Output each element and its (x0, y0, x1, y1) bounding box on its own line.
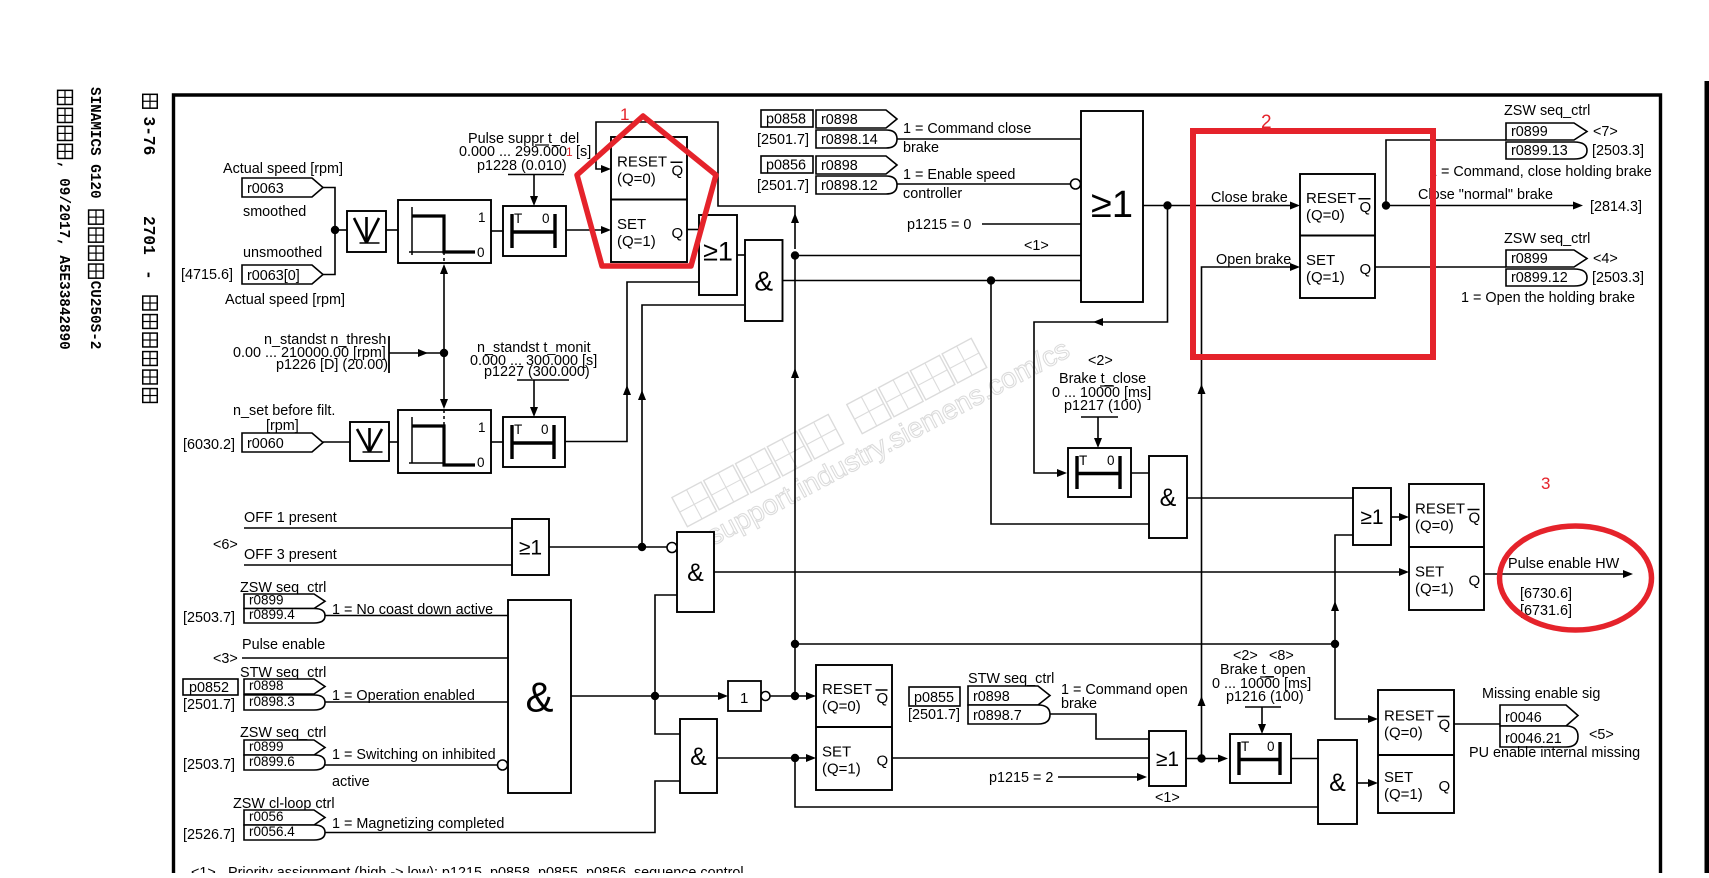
wire FF2 Qbar to [2814.3] (1386, 202, 1583, 210)
label 1 = Switching on inhibited (332, 747, 496, 763)
label 1 = Command close (903, 121, 1031, 137)
wire <1> to big OR (795, 255, 1081, 257)
svg-text:Q: Q (1469, 510, 1481, 527)
label active (332, 774, 370, 790)
svg-text:SET: SET (1415, 564, 1444, 581)
wire p1215=0 to big OR (982, 223, 1081, 225)
wire branch to and-lower input (655, 696, 680, 734)
svg-text:r0899: r0899 (1511, 124, 1548, 140)
wire r0063[0] to junction (323, 230, 335, 275)
svg-text:[2503.3]: [2503.3] (1592, 270, 1644, 286)
or-gate bottom (1149, 731, 1186, 786)
svg-text:, 09/2017, A5E33842890: , 09/2017, A5E33842890 (55, 161, 71, 350)
wire FF1 reset loop (596, 122, 799, 249)
svg-text:ZSW seq_ctrl: ZSW seq_ctrl (1504, 231, 1590, 247)
wire bigAND to NOT (571, 692, 728, 700)
label <4> (1593, 251, 1618, 267)
parameter box p0858 (761, 110, 813, 128)
connector r0899.12 (1506, 269, 1587, 286)
wire open-brake up to FF2 SET (1198, 263, 1301, 759)
svg-text:1: 1 (740, 690, 748, 707)
page ref [2503.7] (4) (183, 610, 235, 626)
page ref [2501.7] (p0855) (908, 707, 960, 723)
svg-text:(Q=1): (Q=1) (1384, 786, 1423, 803)
svg-text:Q: Q (1360, 199, 1372, 216)
label brake (open) (1061, 696, 1097, 712)
svg-text:[2501.7]: [2501.7] (757, 132, 809, 148)
svg-text:p0852: p0852 (189, 680, 229, 696)
parameter box p0852 (183, 679, 238, 696)
connector r0899.6 (244, 754, 325, 770)
svg-text:r0899.6: r0899.6 (249, 754, 295, 769)
svg-text:[s]: [s] (576, 144, 591, 160)
svg-text:(Q=0): (Q=0) (1306, 207, 1345, 224)
svg-text:T: T (1241, 739, 1249, 754)
label <1> at big OR (1024, 238, 1049, 254)
label 0.00 ... 210000.00 [rpm] (233, 345, 386, 361)
connector r0046.21 (1500, 726, 1578, 747)
svg-text:p1215 = 2: p1215 = 2 (989, 770, 1053, 786)
wire and1-branch down to and2 (991, 281, 1149, 525)
svg-text:Q: Q (1469, 573, 1481, 590)
wire big OR output to FF2 (1143, 202, 1300, 210)
connector r0898 (14) (816, 110, 897, 128)
label OFF 3 present (244, 547, 337, 563)
svg-text:n_set before filt.: n_set before filt. (233, 403, 335, 419)
parameter box p0856 (761, 156, 813, 174)
label Actual speed [rpm] (top) (223, 161, 343, 177)
wire FF4 Qbar to r0046 (1454, 723, 1500, 725)
svg-text:r0898: r0898 (973, 689, 1010, 705)
svg-text:Pulse enable HW: Pulse enable HW (1508, 556, 1620, 572)
label Close normal brake (1418, 187, 1553, 203)
svg-text:Q: Q (1439, 778, 1451, 795)
svg-text:&: & (525, 674, 553, 721)
wire close-net to FF4 RESET (795, 644, 1378, 723)
connector r0899 (13) (1506, 123, 1587, 140)
label 1 = Command open (1061, 682, 1188, 698)
label n_standst n_thresh (264, 332, 386, 348)
wire FFtop Q pulse enable HW (1484, 570, 1633, 578)
page ref [2503.3] (12) (1592, 270, 1644, 286)
svg-text:r0056: r0056 (249, 809, 284, 824)
p1227 parameter stem (517, 380, 569, 417)
label 1 = Open the holding brake (1461, 290, 1635, 306)
red annotation 2 digit (1261, 112, 1272, 133)
svg-text:p1228 (0.010): p1228 (0.010) (477, 158, 567, 174)
page ref [2501.7] (p0856) (757, 178, 809, 194)
svg-text:r0899.13: r0899.13 (1511, 143, 1568, 159)
connector r0899 (6) (244, 739, 325, 755)
connector r0899 (4) (244, 593, 325, 609)
page ref [6731.6] (1520, 603, 1572, 619)
svg-text:Q: Q (672, 225, 684, 242)
wire hysteresis to timer p1228 (491, 230, 503, 232)
svg-text:r0898.12: r0898.12 (821, 178, 878, 194)
svg-text:1: 1 (620, 105, 629, 124)
wire hysteresis2 to timer p1227 (491, 441, 503, 443)
wire FF3 Q to or-bottom (892, 757, 1149, 759)
wire and2 to or-top (1187, 497, 1353, 499)
svg-text:T: T (514, 211, 522, 226)
label <2> (t_close) (1088, 353, 1113, 369)
wire r0899.4 to big AND (325, 615, 508, 617)
svg-text:OFF 1 present: OFF 1 present (244, 510, 337, 526)
label Missing enable sig (1482, 686, 1600, 702)
label Pulse suppr t_del (468, 131, 579, 147)
flip-flop U1 (pulse suppr) (611, 137, 687, 262)
wire and-upper to FF-top SET (714, 568, 1409, 576)
label Brake t_open (1220, 662, 1306, 678)
timer block p1227 monitoring (503, 417, 565, 467)
timer block p1216 t_open (1230, 734, 1291, 783)
svg-text:Pulse enable: Pulse enable (242, 637, 325, 653)
connector r0056 (244, 809, 325, 825)
connector r0898.14 (816, 130, 897, 148)
label 1 = No coast down active (332, 602, 493, 618)
svg-text:Close brake: Close brake (1211, 190, 1288, 206)
svg-text:(Q=0): (Q=0) (1415, 518, 1454, 535)
svg-text:0: 0 (542, 211, 550, 226)
svg-text:1 = Enable speed: 1 = Enable speed (903, 167, 1015, 183)
label Actual speed [rpm] (bottom) (225, 292, 345, 308)
footnote priority assignment (191, 865, 744, 878)
node NOT branch (791, 692, 799, 700)
p1226 stem bar (388, 336, 390, 373)
wire FF1 Q to OR gate (687, 229, 699, 231)
p1217 parameter stem (1081, 417, 1118, 448)
wire p1215=2 to or-bottom (1058, 773, 1147, 781)
page ref [6730.6] (1520, 586, 1572, 602)
page ref [2503.7] (6) (183, 757, 235, 773)
svg-text:2701: 2701 (139, 216, 157, 255)
page ref [4715.6] (181, 267, 233, 283)
svg-text:Q: Q (877, 753, 889, 770)
label 1 = Command, close holding brake (1429, 164, 1652, 180)
svg-text:p1216 (100): p1216 (100) (1226, 689, 1304, 705)
timer block p1217 t_close (1068, 448, 1131, 497)
svg-text:r0898.3: r0898.3 (249, 694, 295, 709)
label 1 = Enable speed (903, 167, 1015, 183)
node close-net mid (791, 640, 799, 648)
wire r0898.14 to big OR (897, 138, 1081, 140)
wire r0899.6 to big AND (325, 760, 508, 770)
wire or-bottom to t_open (1186, 755, 1228, 763)
label p1228 (0.010) (477, 158, 567, 174)
label ZSW seq_ctrl (7) (1504, 103, 1590, 119)
wire or to and gate1 (737, 254, 745, 256)
svg-text:0: 0 (477, 245, 485, 260)
svg-text:0: 0 (477, 455, 485, 470)
flip-flop U5 (missing enable) (1378, 690, 1454, 813)
and-gate main enable (508, 600, 571, 793)
wire and-lower to FF3 SET (717, 754, 816, 762)
connector r0060 (242, 433, 323, 452)
svg-text:[rpm]: [rpm] (266, 418, 299, 434)
svg-text:STW seq_ctrl: STW seq_ctrl (968, 671, 1054, 687)
wire pulse enable to big AND (242, 657, 508, 659)
label n_set before filt. (233, 403, 335, 419)
svg-text:<7>: <7> (1593, 124, 1618, 140)
svg-text:0: 0 (541, 422, 549, 437)
and-gate2 (1149, 456, 1187, 538)
svg-text:Q: Q (672, 162, 684, 179)
connector r0063 (242, 178, 323, 197)
svg-text:&: & (687, 559, 704, 587)
svg-text:<2>: <2> (1088, 353, 1113, 369)
wire timer2 up to OR gate (565, 282, 699, 442)
label 0.000 ... 300.000 [s] (470, 353, 597, 369)
node FF2 Qbar branch (1382, 201, 1390, 209)
label p1216 (100) (1226, 689, 1304, 705)
wire r0056.4 to and-lower (325, 781, 680, 833)
label ZSW seq_ctrl (r0899.6) (240, 725, 326, 741)
svg-text:3-76: 3-76 (139, 117, 157, 156)
node or-bottom branch (1197, 754, 1205, 762)
svg-text:[2503.7]: [2503.7] (183, 610, 235, 626)
label <7> (1593, 124, 1618, 140)
connector r0056.4 (244, 824, 325, 840)
label <2> <8> (1233, 648, 1294, 664)
label 0 ... 10000 [ms] (t_open) (1212, 676, 1311, 692)
wire OFF-or to and-upper (549, 543, 677, 553)
svg-text:RESET: RESET (1415, 501, 1465, 518)
svg-text:r0898: r0898 (249, 678, 284, 693)
label STW seq_ctrl (r0898.7) (968, 671, 1054, 687)
svg-text:Q: Q (1360, 261, 1372, 278)
wire branch to and-upper input (655, 595, 677, 696)
wire NOT to FF3 RESET (770, 692, 816, 700)
label smoothed (243, 204, 306, 220)
svg-text:p0858: p0858 (766, 112, 806, 128)
svg-text:r0063: r0063 (247, 181, 284, 197)
abs-value block (speed) (347, 211, 386, 252)
svg-text:[2814.3]: [2814.3] (1590, 199, 1642, 215)
wire timer to FF1 SET (566, 226, 611, 234)
svg-text:-: - (139, 270, 157, 280)
svg-text:<1>: <1> (191, 865, 216, 873)
node OFF branch (638, 543, 646, 551)
wire t_close to and2 (1131, 472, 1149, 474)
node OR output branch (1163, 201, 1171, 209)
label controller (903, 186, 962, 202)
svg-text:1: 1 (566, 145, 573, 159)
wire p1226 to threshold line (389, 349, 444, 357)
svg-text:SET: SET (1384, 769, 1413, 786)
svg-text:CU250S-2: CU250S-2 (86, 281, 102, 350)
left margin vertical caption: figure 3-76 (139, 94, 157, 155)
wire t_open to and3 (1291, 758, 1318, 760)
svg-text:1 = Switching on inhibited: 1 = Switching on inhibited (332, 747, 496, 763)
red annotation 3 digit (1541, 474, 1550, 493)
red annotation pentagon (577, 116, 716, 266)
or-gate standstill (699, 215, 737, 295)
svg-text:r0046: r0046 (1505, 710, 1542, 726)
svg-text:r0899: r0899 (249, 739, 284, 754)
label ZSW seq_ctrl (4) (1504, 231, 1590, 247)
svg-text:(Q=1): (Q=1) (1415, 581, 1454, 598)
svg-text:r0899.12: r0899.12 (1511, 270, 1568, 286)
label Brake t_close (1059, 371, 1146, 387)
red annotation rectangle (1193, 131, 1433, 357)
svg-text:RESET: RESET (1384, 708, 1434, 725)
label ZSW seq_ctrl (r0899.4) (240, 580, 326, 596)
flip-flop U3 (open brake cmd) (816, 665, 892, 790)
connector r0898 (12) (816, 156, 897, 174)
svg-text:p1226 [D] (20.00): p1226 [D] (20.00) (276, 357, 388, 373)
svg-text:r0898.14: r0898.14 (821, 132, 878, 148)
label STW seq_ctrl (r0898.3) (240, 665, 326, 681)
svg-text:<6>: <6> (213, 537, 238, 553)
svg-text:[2526.7]: [2526.7] (183, 827, 235, 843)
svg-text:active: active (332, 774, 370, 790)
svg-text:Actual speed [rpm]: Actual speed [rpm] (223, 161, 343, 177)
svg-text:<5>: <5> (1589, 727, 1614, 743)
svg-text:r0898: r0898 (821, 112, 858, 128)
svg-text:[6030.2]: [6030.2] (183, 437, 235, 453)
svg-text:[4715.6]: [4715.6] (181, 267, 233, 283)
connector r0898.3 (244, 694, 325, 710)
connector r0898.7 (968, 705, 1050, 724)
svg-text:p1227 (300.000): p1227 (300.000) (484, 364, 590, 380)
svg-text:≥1: ≥1 (1091, 184, 1133, 226)
svg-text:1: 1 (478, 210, 486, 225)
timer block p1228 pulse suppression (503, 206, 566, 256)
svg-text:0: 0 (1267, 739, 1275, 754)
svg-text:[2501.7]: [2501.7] (908, 707, 960, 723)
label Pulse enable HW (1508, 556, 1620, 572)
page ref [2814.3] (1590, 199, 1642, 215)
svg-text:≥1: ≥1 (1360, 506, 1383, 529)
svg-text:(Q=0): (Q=0) (822, 698, 861, 715)
svg-text:Q: Q (877, 690, 889, 707)
and-gate lower (open brake) (680, 719, 717, 793)
svg-text:r0899: r0899 (1511, 251, 1548, 267)
svg-text:Priority assignment (high -> l: Priority assignment (high -> low): p1215… (228, 865, 744, 873)
flip-flop U2 (holding brake) (1300, 174, 1375, 298)
wire r0060 to abs block (323, 441, 350, 443)
label 0 ... 10000 [ms] (t_close) (1052, 385, 1151, 401)
svg-text:≥1: ≥1 (1156, 748, 1179, 771)
label n_standst t_monit (477, 340, 591, 356)
node FF4-reset branch (1331, 640, 1339, 648)
svg-text:0: 0 (1107, 453, 1115, 468)
red annotation 1 digit (620, 105, 629, 124)
wire close-brake net vertical (791, 256, 799, 697)
svg-text:3: 3 (1541, 474, 1550, 493)
page ref [6030.2] (183, 437, 235, 453)
node and1 branch (987, 276, 995, 284)
svg-text:r0060: r0060 (247, 436, 284, 452)
wire abs2 to hysteresis2 (389, 441, 398, 443)
node threshold junction (440, 349, 448, 357)
wire OFF1 (244, 527, 512, 529)
wire and1 output to big OR (783, 280, 1082, 282)
wire r0898.3 to big AND (325, 701, 508, 703)
label 1 = Operation enabled (332, 688, 475, 704)
svg-text:&: & (754, 266, 773, 297)
svg-text:<1>: <1> (1155, 790, 1180, 806)
wire FF2 Qbar to r0899.13 (1386, 140, 1506, 206)
svg-text:<4>: <4> (1593, 251, 1618, 267)
page ref [2503.3] (13) (1592, 143, 1644, 159)
label <6> (213, 537, 238, 553)
svg-text:SET: SET (617, 216, 646, 233)
label <5> (1589, 727, 1614, 743)
svg-text:RESET: RESET (617, 153, 667, 170)
svg-text:1 = Magnetizing completed: 1 = Magnetizing completed (332, 816, 504, 832)
label <3> (213, 651, 238, 667)
connector r0046 (1500, 705, 1578, 726)
label 1 = Magnetizing completed (332, 816, 504, 832)
parameter box p0855 (909, 687, 960, 706)
svg-text:[2501.7]: [2501.7] (757, 178, 809, 194)
svg-text:p1215 = 0: p1215 = 0 (907, 217, 971, 233)
watermark siemens forum (672, 301, 1074, 558)
left margin vertical caption: SINAMICS G120 control unit CU250S-2 (86, 87, 104, 349)
svg-text:p1217 (100): p1217 (100) (1064, 398, 1142, 414)
page ref [2501.7] (p0852) (183, 697, 235, 713)
wire threshold vertical (440, 264, 448, 409)
label brake (close) (903, 140, 939, 156)
p1216 parameter stem (1245, 707, 1281, 734)
red annotation ellipse (1500, 526, 1652, 630)
svg-text:SET: SET (822, 744, 851, 761)
svg-text:controller: controller (903, 186, 962, 202)
label [rpm] (n_set) (266, 418, 299, 434)
wire abs to hysteresis (386, 229, 398, 231)
node close-net top (791, 251, 799, 259)
wire open loop down (795, 758, 1318, 807)
wire r0898.7 to or-bottom (1050, 714, 1149, 739)
svg-text:(Q=1): (Q=1) (617, 233, 656, 250)
label ZSW cl-loop ctrl (233, 796, 335, 812)
svg-text:<1>: <1> (1024, 238, 1049, 254)
connector r0898 (7) (968, 686, 1050, 705)
svg-text:PU enable internal missing: PU enable internal missing (1469, 745, 1640, 761)
svg-text:T: T (514, 422, 522, 437)
svg-text:RESET: RESET (822, 681, 872, 698)
svg-text:r0899: r0899 (249, 593, 284, 608)
page ref [2526.7] (183, 827, 235, 843)
connector r0899 (12) (1506, 250, 1587, 267)
label p1215 = 0 (907, 217, 971, 233)
and-gate1 close-brake (745, 240, 783, 321)
or-gate main (close brake) (1081, 111, 1143, 302)
svg-text:p0856: p0856 (766, 158, 806, 174)
svg-text:1 = Command close: 1 = Command close (903, 121, 1031, 137)
left margin vertical caption: 2701 simple brake control (139, 216, 157, 402)
label unsmoothed (243, 245, 322, 261)
svg-text:[2503.3]: [2503.3] (1592, 143, 1644, 159)
abs-value block (n_set) (350, 422, 389, 461)
label p1226 [D] (20.00) (276, 357, 388, 373)
svg-text:smoothed: smoothed (243, 204, 306, 220)
node speed junction (331, 226, 339, 234)
svg-text:RESET: RESET (1306, 190, 1356, 207)
svg-text:<3>: <3> (213, 651, 238, 667)
svg-text:r0056.4: r0056.4 (249, 824, 295, 839)
svg-text:≥1: ≥1 (703, 237, 733, 267)
connector r0898.12 (816, 176, 897, 194)
svg-text:&: & (690, 743, 707, 771)
and-gate upper (close release) (677, 532, 714, 612)
label Pulse enable (242, 637, 325, 653)
label <1> (bottom) (1155, 790, 1180, 806)
label Close brake (1211, 190, 1288, 206)
svg-text:r0898.7: r0898.7 (973, 708, 1022, 724)
svg-text:OFF 3 present: OFF 3 present (244, 547, 337, 563)
